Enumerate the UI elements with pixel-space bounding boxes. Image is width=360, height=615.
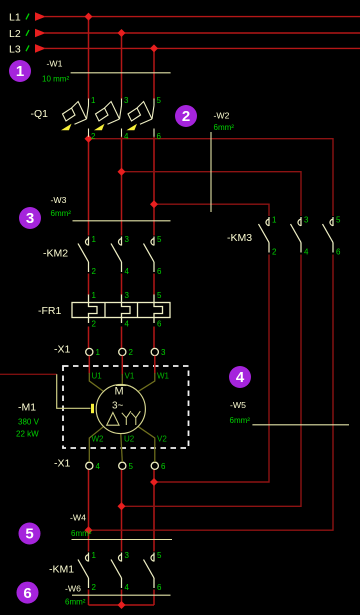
node X1:4 branch	[85, 526, 93, 534]
wire delta link X1:4 to KM3 pole3 bottom	[89, 255, 334, 531]
svg-text:-W4: -W4	[70, 513, 86, 523]
svg-text:-KM2: -KM2	[43, 248, 68, 260]
svg-text:-W2: -W2	[214, 111, 230, 121]
wire branch phase3 to KM3 pole1	[154, 204, 269, 216]
node L2 junction	[118, 29, 126, 37]
svg-text:-KM1: -KM1	[49, 564, 74, 576]
svg-text:6mm²: 6mm²	[51, 209, 72, 218]
svg-text:L3: L3	[9, 43, 21, 55]
svg-text:2: 2	[92, 583, 97, 592]
PE connection to motor frame	[57, 374, 91, 408]
svg-text:U2: U2	[124, 435, 135, 444]
svg-text:4: 4	[125, 267, 130, 276]
svg-text:4: 4	[96, 462, 101, 471]
circuit breaker Q1 pole 2	[96, 99, 122, 137]
svg-text:22 kW: 22 kW	[16, 430, 39, 439]
svg-text:4: 4	[125, 319, 130, 328]
contactor contact KM3 pole 1	[259, 217, 270, 253]
motor return wire U2	[121, 434, 123, 463]
svg-text:3: 3	[26, 210, 34, 227]
motor return wire V2	[138, 426, 155, 462]
contactor contact KM2 pole 1	[78, 237, 89, 273]
svg-text:1: 1	[92, 291, 97, 300]
svg-text:5: 5	[25, 526, 33, 543]
svg-text:2: 2	[92, 319, 97, 328]
svg-text:3: 3	[304, 216, 309, 225]
svg-text:L2: L2	[9, 28, 21, 40]
svg-text:3: 3	[125, 551, 130, 560]
svg-text:5: 5	[157, 291, 162, 300]
svg-text:4: 4	[124, 132, 129, 141]
svg-text:-Q1: -Q1	[31, 108, 49, 120]
wire delta link X1:5 to KM3 pole2 bottom	[122, 255, 302, 507]
motor feed wire V1	[121, 356, 123, 375]
circuit breaker Q1 pole 3	[128, 99, 154, 137]
node phase3 branch	[150, 200, 158, 208]
wire branch phase2 to KM3 pole2	[122, 172, 302, 216]
wire label W1	[42, 59, 171, 84]
node X1:5 branch	[118, 502, 126, 510]
terminal X1:2	[119, 348, 134, 357]
svg-text:380 V: 380 V	[18, 418, 40, 427]
contactor contact KM2 pole 3	[144, 237, 155, 273]
motor M1 circle	[96, 384, 145, 433]
wires Q1 outputs down to KM2	[88, 137, 90, 236]
wire L1 drop to Q1 pin 1	[88, 17, 90, 100]
wire label W6	[65, 583, 171, 606]
supply line L2	[9, 28, 360, 40]
circuit breaker Q1 pole 1	[63, 99, 89, 137]
svg-text:6: 6	[157, 132, 162, 141]
supply line L1	[9, 12, 360, 24]
contactor contact KM3 pole 2	[291, 217, 302, 253]
contactor contact KM3 pole 3	[323, 217, 334, 253]
svg-text:1: 1	[91, 96, 96, 105]
svg-text:-W1: -W1	[47, 59, 63, 69]
wires FR1 to X1 top	[88, 327, 90, 349]
svg-text:5: 5	[336, 216, 341, 225]
svg-text:2: 2	[92, 267, 97, 276]
svg-text:5: 5	[129, 462, 134, 471]
svg-text:-FR1: -FR1	[38, 305, 61, 317]
wire branch phase1 to KM3 pole3	[89, 139, 334, 216]
wires X1 bottom down to KM1	[88, 469, 90, 551]
svg-text:V1: V1	[125, 372, 135, 381]
svg-text:2: 2	[91, 132, 96, 141]
motor feed wire U1	[88, 356, 90, 374]
svg-text:5: 5	[157, 96, 162, 105]
svg-text:-KM3: -KM3	[227, 232, 252, 244]
svg-text:4: 4	[236, 369, 245, 386]
svg-text:6: 6	[157, 267, 162, 276]
motor return wire W2	[89, 426, 104, 462]
svg-text:-W3: -W3	[51, 195, 67, 205]
page reference circle 6	[17, 582, 39, 604]
node star point	[118, 601, 126, 609]
svg-text:6: 6	[157, 319, 162, 328]
supply line L3	[9, 43, 360, 55]
contactor contact KM2 pole 2	[111, 237, 122, 273]
svg-text:6mm²: 6mm²	[71, 529, 92, 538]
svg-text:3: 3	[125, 235, 130, 244]
svg-text:-W5: -W5	[230, 400, 246, 410]
node phase1 branch	[85, 135, 93, 143]
terminal X1:5	[119, 462, 134, 471]
svg-text:2: 2	[182, 108, 190, 125]
svg-text:3: 3	[124, 96, 129, 105]
svg-text:6mm²: 6mm²	[65, 597, 86, 606]
svg-text:6: 6	[23, 585, 31, 602]
svg-text:V2: V2	[157, 435, 167, 444]
wires KM2 to FR1	[88, 274, 90, 296]
thermal relay FR1 body	[72, 303, 170, 318]
page reference circle 1	[9, 60, 31, 82]
motor star symbols	[122, 411, 141, 425]
wire delta link X1:6 to KM3 pole1 bottom	[154, 255, 269, 483]
svg-text:5: 5	[157, 235, 162, 244]
svg-text:2: 2	[272, 247, 277, 256]
svg-text:3: 3	[161, 348, 166, 357]
svg-text:M: M	[115, 386, 124, 398]
page reference circle 3	[19, 207, 41, 229]
svg-text:4: 4	[304, 247, 309, 256]
svg-text:6mm²: 6mm²	[230, 416, 251, 425]
svg-text:1: 1	[272, 216, 277, 225]
contactor contact KM1 pole 1	[78, 553, 89, 589]
svg-text:1: 1	[16, 63, 24, 80]
motor delta symbol	[107, 413, 119, 426]
svg-text:2: 2	[129, 348, 134, 357]
svg-text:-X1: -X1	[54, 344, 71, 356]
page reference circle 5	[19, 523, 41, 545]
star point bus wire	[89, 604, 155, 606]
node X1:6 branch	[150, 478, 158, 486]
wire label W2	[211, 111, 234, 213]
terminal X1:4	[86, 462, 101, 471]
svg-text:3: 3	[125, 291, 130, 300]
svg-text:1: 1	[96, 348, 101, 357]
wire L2 drop to Q1 pin 3	[121, 33, 123, 100]
wire label W4	[70, 513, 172, 540]
motor terminal labels	[92, 372, 170, 444]
PE feed wire	[0, 373, 57, 375]
thermal overload FR1 pole 2	[122, 295, 131, 324]
node L1 junction	[85, 13, 93, 21]
wires KM1 bottoms to star point bus	[88, 590, 90, 606]
thermal overload FR1 pole 3	[154, 295, 163, 324]
node phase2 branch	[118, 168, 126, 176]
contactor contact KM1 pole 2	[111, 553, 122, 589]
wire label W3	[51, 195, 171, 221]
svg-text:1: 1	[92, 551, 97, 560]
svg-text:6: 6	[336, 247, 341, 256]
svg-text:3~: 3~	[112, 401, 124, 412]
svg-text:1: 1	[92, 235, 97, 244]
svg-text:-W6: -W6	[65, 583, 81, 593]
svg-text:4: 4	[125, 583, 130, 592]
terminal X1:3	[151, 348, 166, 357]
svg-text:6mm²: 6mm²	[214, 123, 235, 132]
node L3 junction	[150, 44, 158, 52]
svg-text:W2: W2	[92, 435, 105, 444]
motor feed wire W1	[154, 356, 156, 374]
svg-text:L1: L1	[9, 12, 21, 24]
wire L3 drop to Q1 pin 5	[153, 48, 155, 99]
contactor contact KM1 pole 3	[144, 553, 155, 589]
svg-text:6: 6	[161, 462, 166, 471]
page reference circle 2	[175, 105, 197, 127]
thermal overload FR1 pole 1	[89, 295, 98, 324]
svg-text:W1: W1	[157, 372, 170, 381]
svg-text:10 mm²: 10 mm²	[42, 75, 69, 84]
svg-text:-M1: -M1	[18, 402, 36, 414]
page reference circle 4	[229, 366, 251, 388]
wire label W5	[230, 400, 350, 425]
svg-text:6: 6	[157, 583, 162, 592]
svg-text:5: 5	[157, 551, 162, 560]
terminal X1:1	[86, 348, 101, 357]
svg-text:-X1: -X1	[54, 458, 71, 470]
svg-text:U1: U1	[92, 372, 103, 381]
motor enclosure dashed box	[63, 366, 189, 448]
terminal X1:6	[151, 462, 166, 471]
